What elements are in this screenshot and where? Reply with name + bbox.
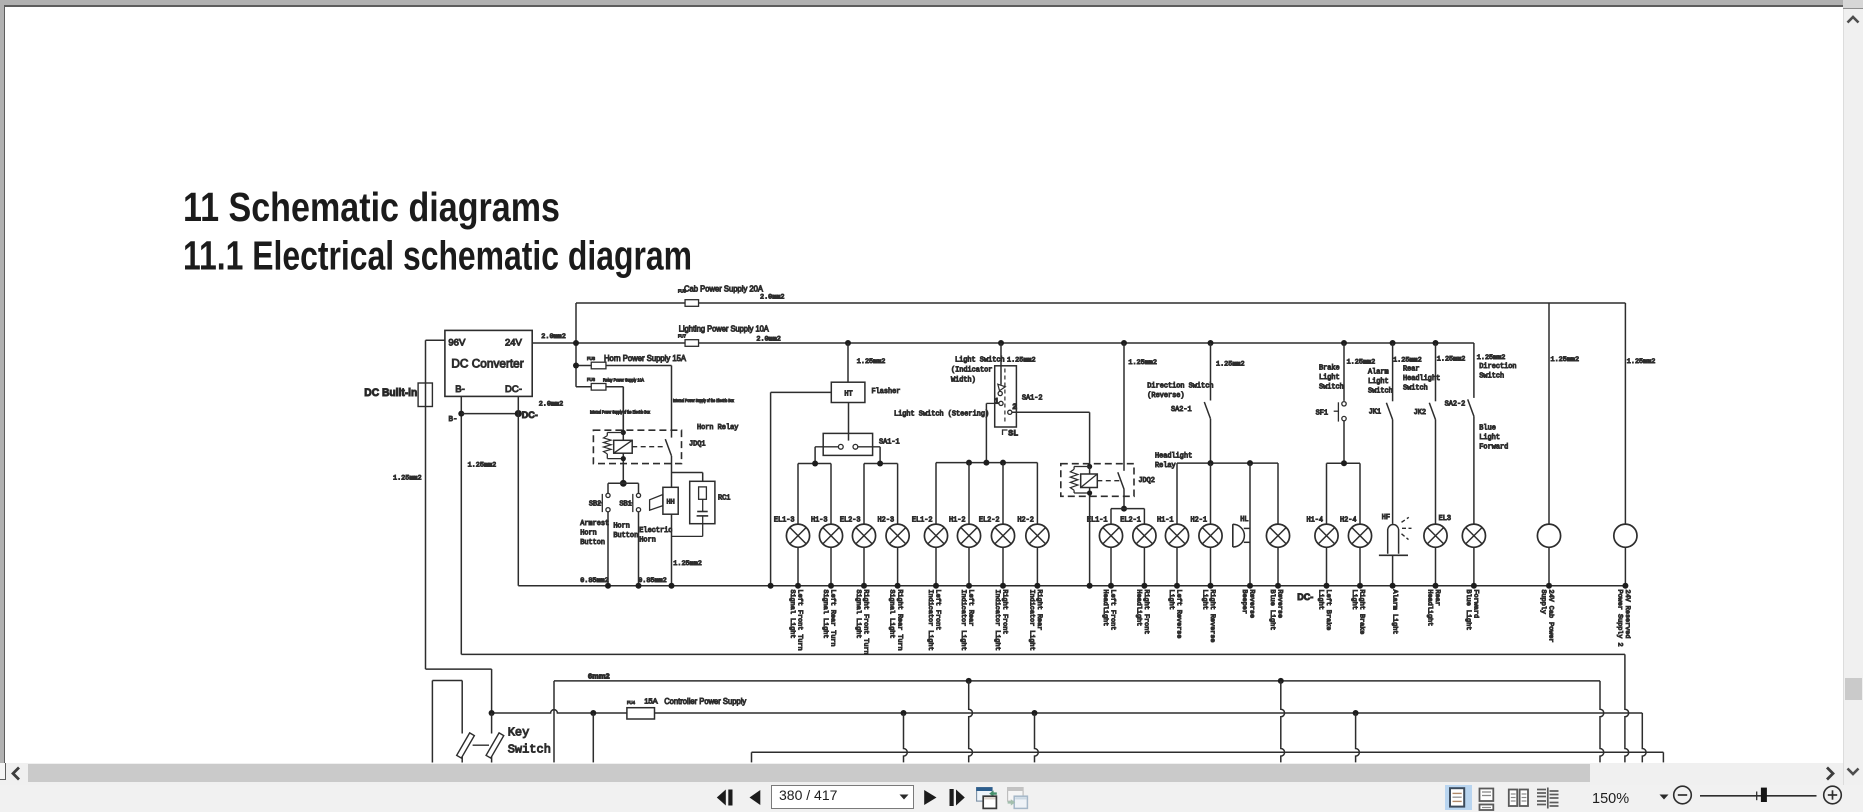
lamp EL2-2 bbox=[979, 463, 1015, 651]
svg-text:6mm2: 6mm2 bbox=[588, 672, 610, 681]
svg-text:Alarm: Alarm bbox=[1368, 368, 1389, 376]
svg-text:SF1: SF1 bbox=[1316, 410, 1328, 418]
horizontal scrollbar left arrow bbox=[7, 764, 25, 783]
toolbar single page view (active) bbox=[1445, 785, 1472, 810]
svg-text:15A: 15A bbox=[644, 697, 658, 706]
svg-text:Right Front: Right Front bbox=[1001, 590, 1009, 635]
lamp EL3 rear headlight bbox=[1439, 515, 1451, 523]
switch SA1-1 turn signal switch bbox=[823, 403, 899, 456]
svg-text:Left Front: Left Front bbox=[1109, 590, 1117, 631]
relay JDQ2 actuation link bbox=[1097, 480, 1119, 482]
svg-text:Light: Light bbox=[1319, 374, 1340, 382]
svg-text:DC-: DC- bbox=[1297, 592, 1313, 602]
lamp H1-4 bbox=[1306, 463, 1338, 630]
svg-text:Blue: Blue bbox=[1479, 424, 1496, 432]
key switch SW bbox=[432, 681, 551, 763]
svg-text:SA2-2: SA2-2 bbox=[1445, 400, 1466, 408]
vertical scrollbar track bbox=[1843, 9, 1863, 785]
node controller tap bbox=[590, 710, 596, 762]
alarm light HF bbox=[1379, 514, 1412, 634]
svg-text:JDQ2: JDQ2 bbox=[1138, 477, 1155, 485]
svg-text:RC1: RC1 bbox=[718, 495, 730, 503]
svg-text:1.25mm2: 1.25mm2 bbox=[1347, 359, 1376, 367]
wire key line bus C bbox=[492, 710, 1646, 763]
lamp H2-2 bbox=[1017, 463, 1049, 651]
switch JK1 alarm light switch bbox=[1368, 340, 1422, 524]
svg-text:11 Schematic diagrams: 11 Schematic diagrams bbox=[183, 184, 560, 230]
svg-text:Headlight: Headlight bbox=[1403, 375, 1440, 383]
svg-text:Power Supply 2: Power Supply 2 bbox=[1615, 590, 1623, 647]
wire B- bbox=[448, 396, 496, 654]
wire cab power supply rail bbox=[576, 303, 1625, 524]
svg-text:1.25mm2: 1.25mm2 bbox=[1477, 354, 1506, 362]
node horn buttons junction bbox=[608, 480, 639, 487]
svg-text:HT: HT bbox=[844, 391, 852, 399]
svg-text:Switch: Switch bbox=[1368, 387, 1393, 395]
svg-text:2: 2 bbox=[1012, 403, 1017, 412]
node key switch feed bbox=[489, 710, 495, 716]
toolbar zoom dropdown arrow bbox=[1658, 793, 1670, 801]
toolbar prev-page button bbox=[746, 786, 770, 810]
flasher HT bbox=[831, 340, 900, 403]
svg-text:Headlight: Headlight bbox=[1134, 590, 1142, 627]
node right turn feed bar bbox=[864, 461, 898, 467]
svg-text:Horn Power Supply 15A: Horn Power Supply 15A bbox=[604, 353, 686, 363]
svg-text:SL: SL bbox=[1008, 429, 1018, 438]
wire SA1-1 left output bbox=[815, 447, 838, 464]
toolbar zoom in button bbox=[1822, 785, 1843, 806]
svg-text:Indicator Light: Indicator Light bbox=[1027, 590, 1035, 651]
svg-text:Electric: Electric bbox=[639, 527, 672, 535]
svg-text:Indicator Light: Indicator Light bbox=[959, 590, 967, 651]
svg-text:Switch: Switch bbox=[1319, 383, 1344, 391]
wire to RC1 bbox=[672, 473, 703, 482]
wire relay power supply rail bbox=[576, 387, 623, 433]
label internal power supply note 2 bbox=[673, 398, 735, 403]
svg-text:Lighting Power Supply 10A: Lighting Power Supply 10A bbox=[679, 324, 769, 334]
switch SA2-2 direction switch forward bbox=[1445, 343, 1517, 524]
svg-text:H2-4: H2-4 bbox=[1340, 516, 1357, 524]
toolbar previous-view button bbox=[975, 786, 999, 810]
svg-text:0.85mm2: 0.85mm2 bbox=[580, 577, 609, 585]
svg-text:HF: HF bbox=[1382, 514, 1390, 522]
svg-text:Horn Relay: Horn Relay bbox=[697, 424, 738, 432]
svg-text:Right Rear Turn: Right Rear Turn bbox=[895, 590, 903, 651]
svg-text:Light: Light bbox=[1368, 378, 1389, 386]
svg-text:Headlight: Headlight bbox=[1101, 590, 1109, 627]
svg-text:Width): Width) bbox=[951, 377, 976, 385]
svg-text:1.25mm2: 1.25mm2 bbox=[1216, 361, 1245, 369]
lamp EL1-2 bbox=[912, 463, 948, 651]
toolbar last-page button bbox=[945, 786, 969, 810]
fuse FU8 Horn Power Supply 15A bbox=[587, 353, 686, 369]
svg-text:Relay Power Supply 10A: Relay Power Supply 10A bbox=[603, 378, 644, 383]
scrollbar top cap bbox=[1843, 0, 1863, 9]
svg-text:Headlight: Headlight bbox=[1155, 453, 1192, 461]
node brake feed bar bbox=[1327, 460, 1361, 466]
terminal 24V cab power supply bbox=[1549, 303, 1579, 524]
svg-text:Horn: Horn bbox=[613, 523, 630, 531]
wire DC- bus bbox=[518, 585, 1625, 587]
toolbar zoom slider bbox=[1696, 785, 1846, 806]
pushbutton SB1 horn button bbox=[613, 483, 666, 589]
svg-text:Light: Light bbox=[1200, 590, 1208, 610]
svg-text:Internal Power Supply of the E: Internal Power Supply of the Electric Bo… bbox=[673, 398, 735, 403]
svg-text:SB1: SB1 bbox=[619, 501, 631, 509]
app frame top strip bbox=[0, 0, 1843, 5]
beeper HL reverse beeper bbox=[1233, 463, 1256, 618]
svg-text:FU8: FU8 bbox=[587, 356, 596, 361]
fuse FU6 Relay Power Supply 10A bbox=[587, 377, 644, 390]
svg-text:Reverse: Reverse bbox=[1248, 590, 1256, 619]
label light switch steering bbox=[894, 411, 989, 419]
lamp H2-3 bbox=[878, 464, 910, 651]
svg-text:Blue Light: Blue Light bbox=[1268, 590, 1276, 631]
electric horn HH bbox=[639, 487, 702, 589]
svg-text:1.25mm2: 1.25mm2 bbox=[1551, 356, 1580, 364]
svg-text:FU4: FU4 bbox=[627, 700, 636, 705]
svg-text:1.25mm2: 1.25mm2 bbox=[468, 461, 497, 469]
svg-text:FU7: FU7 bbox=[678, 334, 687, 339]
lamp H1-3 bbox=[811, 464, 843, 647]
svg-text:Button: Button bbox=[613, 532, 638, 540]
svg-text:1.25mm2: 1.25mm2 bbox=[1437, 355, 1466, 363]
svg-text:Switch: Switch bbox=[508, 742, 551, 756]
connector DC built-in bbox=[364, 383, 432, 407]
svg-text:2.0mm2: 2.0mm2 bbox=[756, 336, 780, 344]
svg-text:(Indicator: (Indicator bbox=[951, 367, 992, 375]
label DC- on bus bbox=[1297, 592, 1313, 602]
lamp reverse blue light bbox=[1266, 463, 1289, 630]
svg-text:Rear: Rear bbox=[1433, 590, 1441, 606]
node DC- bbox=[461, 410, 538, 420]
svg-text:Rear: Rear bbox=[1403, 366, 1420, 374]
toolbar first-page button bbox=[714, 786, 738, 810]
svg-text:Armrest: Armrest bbox=[580, 520, 609, 528]
svg-text:Signal Light: Signal Light bbox=[821, 590, 829, 639]
svg-text:FU6: FU6 bbox=[587, 377, 596, 382]
switch SA1-2 light switch (indicator width) bbox=[951, 340, 1043, 438]
svg-text:Left Brake: Left Brake bbox=[1324, 590, 1332, 631]
relay JDQ1 actuation link bbox=[632, 446, 665, 448]
svg-text:B-: B- bbox=[448, 416, 457, 424]
horizontal scrollbar track bbox=[0, 763, 1843, 785]
svg-text:1.25mm2: 1.25mm2 bbox=[857, 358, 886, 366]
svg-text:DC-: DC- bbox=[505, 384, 522, 395]
wire bus D bbox=[752, 752, 1664, 762]
pushbutton SB2 armrest horn button bbox=[580, 483, 611, 589]
svg-text:Light: Light bbox=[1167, 590, 1175, 610]
svg-text:Internal Power Supply of the E: Internal Power Supply of the Electric Bo… bbox=[590, 410, 651, 415]
lamp EL1-3 bbox=[774, 464, 810, 651]
lamp H1-2 bbox=[949, 463, 981, 651]
svg-text:EL2-1: EL2-1 bbox=[1120, 516, 1141, 524]
svg-text:Light Switch (Steering): Light Switch (Steering) bbox=[894, 411, 989, 419]
vertical scrollbar up arrow bbox=[1844, 10, 1863, 28]
svg-text:Light: Light bbox=[1350, 590, 1358, 610]
fuse FU4 controller power supply 15A bbox=[627, 696, 747, 719]
svg-text:1: 1 bbox=[994, 397, 999, 406]
viewport border top bbox=[4, 5, 1844, 7]
snubber RC1 bbox=[672, 481, 731, 536]
node bus B tap 2 bbox=[1278, 678, 1285, 763]
wire horn power supply rail bbox=[573, 363, 672, 438]
svg-text:EL1-1: EL1-1 bbox=[1087, 516, 1108, 524]
svg-text:DC-: DC- bbox=[522, 410, 538, 420]
svg-text:24V: 24V bbox=[505, 338, 523, 349]
lamp H2-4 bbox=[1340, 463, 1372, 634]
horizontal scrollbar right arrow bbox=[1821, 764, 1839, 783]
toolbar continuous facing view bbox=[1536, 786, 1560, 811]
toolbar facing view bbox=[1507, 786, 1531, 811]
svg-text:Beeper: Beeper bbox=[1240, 590, 1248, 614]
svg-text:Signal Light: Signal Light bbox=[854, 590, 862, 639]
svg-text:96V: 96V bbox=[448, 338, 466, 349]
toolbar page box dropdown arrow bbox=[898, 793, 910, 801]
toolbar zoom out button bbox=[1672, 785, 1693, 806]
vertical scrollbar down arrow bbox=[1844, 764, 1863, 782]
svg-text:HH: HH bbox=[667, 499, 675, 507]
relay JDQ1 coil bbox=[604, 387, 633, 484]
toolbar continuous view bbox=[1477, 786, 1499, 811]
svg-text:Brake: Brake bbox=[1319, 364, 1340, 372]
node left turn feed bar bbox=[798, 461, 831, 467]
svg-text:SA2-1: SA2-1 bbox=[1171, 406, 1192, 414]
svg-text:2.0mm2: 2.0mm2 bbox=[539, 401, 563, 409]
horizontal scrollbar corner box bbox=[0, 763, 6, 780]
svg-text:H1-3: H1-3 bbox=[811, 516, 828, 524]
svg-text:Indicator Light: Indicator Light bbox=[926, 590, 934, 651]
toolbar page number box bbox=[771, 785, 914, 810]
svg-text:Relay: Relay bbox=[1155, 462, 1176, 470]
svg-text:Left Rear: Left Rear bbox=[967, 590, 975, 627]
svg-text:EL3: EL3 bbox=[1439, 515, 1451, 523]
svg-text:B-: B- bbox=[455, 384, 465, 395]
svg-text:Signal Light: Signal Light bbox=[888, 590, 896, 639]
wire SA1-2 pin1 to indicator lamps bbox=[986, 403, 999, 462]
toolbar zoom percent bbox=[1592, 791, 1629, 807]
terminal 24V reserved power supply 2 bbox=[1627, 358, 1656, 366]
switch JK2 rear headlight switch bbox=[1403, 340, 1465, 524]
svg-text:H1-2: H1-2 bbox=[949, 516, 966, 524]
svg-text:DC Converter: DC Converter bbox=[451, 356, 523, 370]
svg-text:EL1-3: EL1-3 bbox=[774, 516, 795, 524]
relay JDQ1 contact bbox=[665, 439, 671, 487]
label internal power supply note 1 bbox=[590, 410, 651, 415]
lamp EL2-3 bbox=[840, 464, 876, 655]
wire DC- down to bus bbox=[518, 396, 563, 585]
svg-text:2.0mm2: 2.0mm2 bbox=[541, 333, 565, 341]
svg-text:Horn: Horn bbox=[639, 536, 656, 544]
wire SA1-1 right output bbox=[858, 447, 880, 464]
svg-text:Right Brake: Right Brake bbox=[1358, 590, 1366, 635]
svg-text:H1-1: H1-1 bbox=[1157, 516, 1174, 524]
label 2.0mm2 24V output bbox=[541, 333, 565, 341]
svg-text:JK2: JK2 bbox=[1414, 409, 1426, 417]
DC converter U1 bbox=[445, 330, 532, 396]
node reverse feed bar bbox=[1177, 460, 1278, 466]
toolbar next-page button bbox=[920, 786, 944, 810]
svg-text:Flasher: Flasher bbox=[872, 388, 901, 396]
wire flasher return to DC- bbox=[768, 392, 832, 588]
svg-text:Right Front Turn: Right Front Turn bbox=[862, 590, 870, 655]
svg-text:Key: Key bbox=[508, 725, 530, 739]
vertical scrollbar thumb bbox=[1845, 678, 1862, 700]
svg-text:SB2: SB2 bbox=[589, 501, 601, 509]
viewport border left bbox=[4, 7, 6, 763]
svg-text:1.25mm2: 1.25mm2 bbox=[1393, 356, 1422, 364]
svg-text:1.25mm2: 1.25mm2 bbox=[1128, 359, 1157, 367]
svg-text:Alarm Light: Alarm Light bbox=[1390, 590, 1398, 635]
lamp EL1-1 bbox=[1087, 509, 1123, 631]
toolbar next-view button (disabled) bbox=[1006, 786, 1030, 810]
svg-text:Controller Power Supply: Controller Power Supply bbox=[664, 696, 747, 706]
node indicator feed bar bbox=[936, 460, 1037, 466]
app frame left sliver bbox=[0, 5, 4, 763]
svg-text:H2-3: H2-3 bbox=[878, 516, 895, 524]
svg-text:Light Switch: Light Switch bbox=[955, 357, 1005, 365]
svg-text:Blue Light: Blue Light bbox=[1464, 590, 1472, 631]
node bus C taps bbox=[901, 710, 1360, 762]
svg-text:Switch: Switch bbox=[1403, 385, 1428, 393]
horizontal scrollbar thumb bbox=[28, 764, 1590, 783]
lamp forward blue light bbox=[1462, 524, 1485, 630]
lamp H2-1 bbox=[1190, 463, 1222, 642]
svg-text:Switch: Switch bbox=[1479, 372, 1504, 380]
svg-text:EL1-2: EL1-2 bbox=[912, 516, 933, 524]
svg-text:EL2-3: EL2-3 bbox=[840, 516, 861, 524]
node bus B tap 1 bbox=[966, 678, 973, 763]
relay JDQ2 coil bbox=[1070, 464, 1097, 589]
fuse FU7 Lighting Power Supply 10A bbox=[678, 324, 781, 347]
svg-text:11.1 Electrical schematic diag: 11.1 Electrical schematic diagram bbox=[183, 233, 692, 279]
wire lighting power supply rail bbox=[532, 340, 1474, 346]
svg-text:Forward: Forward bbox=[1472, 590, 1480, 619]
svg-text:Left Front Turn: Left Front Turn bbox=[796, 590, 804, 651]
svg-text:24V Cab Power: 24V Cab Power bbox=[1547, 590, 1555, 643]
svg-text:1.25mm2: 1.25mm2 bbox=[673, 560, 702, 568]
svg-text:Left Front: Left Front bbox=[934, 590, 942, 631]
relay JDQ1 horn relay box bbox=[593, 424, 738, 464]
svg-text:Left Reverse: Left Reverse bbox=[1175, 590, 1183, 639]
switch SA2-1 direction switch (reverse) bbox=[1147, 340, 1244, 463]
label 1.25mm2 left feed bbox=[393, 474, 422, 482]
svg-text:Supply: Supply bbox=[1539, 590, 1547, 614]
svg-text:Direction: Direction bbox=[1479, 363, 1516, 371]
svg-text:Right Front: Right Front bbox=[1142, 590, 1150, 635]
svg-text:Right Rear: Right Rear bbox=[1035, 590, 1043, 631]
svg-text:Cab Power Supply 20A: Cab Power Supply 20A bbox=[684, 283, 763, 293]
svg-text:Signal Light: Signal Light bbox=[788, 590, 796, 639]
svg-text:(Reverse): (Reverse) bbox=[1147, 392, 1184, 400]
svg-text:Indicator Light: Indicator Light bbox=[993, 590, 1001, 651]
node headlight feed bar bbox=[1111, 506, 1144, 512]
lamp EL2-1 bbox=[1120, 509, 1156, 635]
label 6mm2 bbox=[588, 672, 610, 681]
svg-text:Right Reverse: Right Reverse bbox=[1208, 590, 1216, 643]
svg-text:H2-2: H2-2 bbox=[1017, 516, 1034, 524]
svg-text:SA1-1: SA1-1 bbox=[879, 439, 900, 447]
svg-text:EL2-2: EL2-2 bbox=[979, 516, 1000, 524]
svg-text:1.25mm2: 1.25mm2 bbox=[1627, 358, 1656, 366]
svg-text:Headlight: Headlight bbox=[1425, 590, 1433, 627]
svg-text:Forward: Forward bbox=[1479, 443, 1508, 451]
svg-text:2.0mm2: 2.0mm2 bbox=[760, 294, 784, 302]
wire 96V input (DC built-in) bbox=[426, 340, 492, 713]
svg-text:JK1: JK1 bbox=[1369, 409, 1381, 417]
relay JDQ2 contact from lighting rail bbox=[1118, 340, 1157, 509]
svg-text:Reverse: Reverse bbox=[1276, 590, 1284, 619]
svg-text:1.25mm2: 1.25mm2 bbox=[393, 474, 422, 482]
svg-text:JDQ1: JDQ1 bbox=[689, 441, 706, 449]
wire B- bus A bbox=[461, 654, 1628, 762]
svg-text:0.85mm2: 0.85mm2 bbox=[638, 577, 667, 585]
svg-text:Left Rear Turn: Left Rear Turn bbox=[829, 590, 837, 647]
svg-text:HL: HL bbox=[1240, 516, 1248, 524]
lamp H1-1 bbox=[1157, 463, 1189, 638]
wire SA1-2 pin2 to headlight relay bbox=[1012, 412, 1090, 466]
svg-text:1.25mm2: 1.25mm2 bbox=[1007, 357, 1036, 365]
svg-text:Light: Light bbox=[1479, 434, 1500, 442]
svg-text:24V Reserved: 24V Reserved bbox=[1623, 590, 1631, 639]
wire bus B bbox=[554, 681, 1604, 763]
svg-text:DC Built-in: DC Built-in bbox=[364, 387, 417, 399]
svg-text:Horn: Horn bbox=[580, 529, 597, 537]
svg-text:H2-1: H2-1 bbox=[1190, 516, 1207, 524]
svg-text:H1-4: H1-4 bbox=[1306, 516, 1323, 524]
svg-text:Button: Button bbox=[580, 539, 605, 547]
bottom toolbar bbox=[0, 785, 1863, 812]
relay JDQ2 headlight relay box bbox=[1061, 453, 1192, 497]
svg-text:Direction Switch: Direction Switch bbox=[1147, 382, 1213, 390]
svg-text:SA1-2: SA1-2 bbox=[1022, 395, 1043, 403]
svg-text:Light: Light bbox=[1316, 590, 1324, 610]
switch SF1 brake light switch bbox=[1316, 340, 1376, 463]
fuse FU5 Cab Power Supply 20A bbox=[678, 283, 784, 306]
